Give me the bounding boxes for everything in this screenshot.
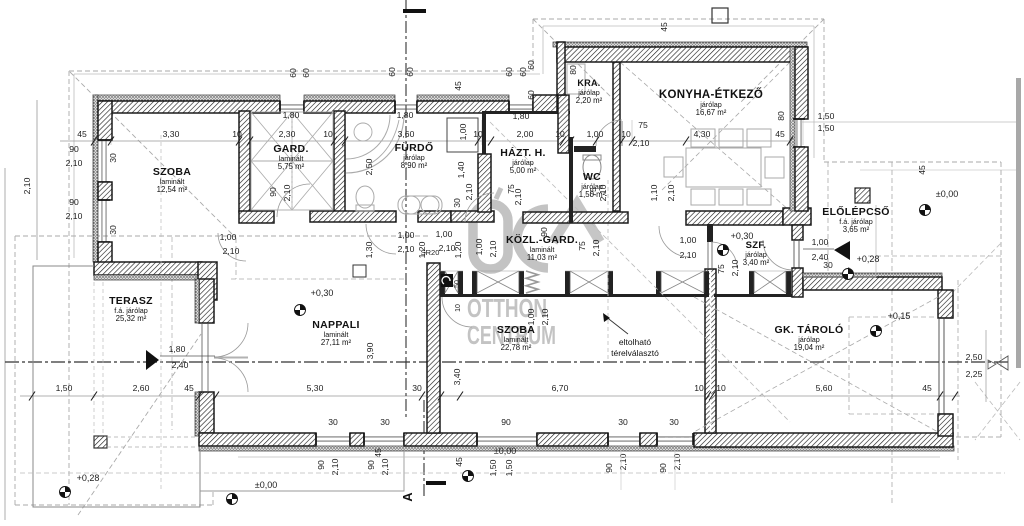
svg-text:1,80: 1,80 xyxy=(169,344,186,354)
svg-text:90: 90 xyxy=(501,417,511,427)
svg-text:+0,30: +0,30 xyxy=(311,288,334,298)
svg-text:5,00 m²: 5,00 m² xyxy=(510,166,537,175)
svg-text:1,30: 1,30 xyxy=(364,241,374,258)
svg-text:2,10: 2,10 xyxy=(633,138,650,148)
svg-text:45: 45 xyxy=(77,129,87,139)
svg-text:90: 90 xyxy=(69,197,79,207)
svg-text:1,10: 1,10 xyxy=(649,184,659,201)
svg-text:2,10: 2,10 xyxy=(398,244,415,254)
svg-text:5,60: 5,60 xyxy=(816,383,833,393)
svg-text:1,00: 1,00 xyxy=(436,229,453,239)
svg-text:90: 90 xyxy=(539,227,549,237)
svg-text:2,00: 2,00 xyxy=(517,129,534,139)
svg-text:1,50: 1,50 xyxy=(488,459,498,476)
svg-text:2,10: 2,10 xyxy=(464,183,474,200)
svg-text:±0,00: ±0,00 xyxy=(255,480,277,490)
svg-text:45: 45 xyxy=(917,165,927,175)
svg-text:10: 10 xyxy=(455,304,462,312)
svg-text:eltolható: eltolható xyxy=(619,337,651,347)
svg-text:60: 60 xyxy=(526,90,536,100)
svg-text:3,65 m²: 3,65 m² xyxy=(843,225,870,234)
svg-text:10: 10 xyxy=(716,383,726,393)
svg-text:60: 60 xyxy=(504,67,514,77)
svg-text:30: 30 xyxy=(618,417,628,427)
svg-text:2,10: 2,10 xyxy=(672,453,682,470)
svg-text:12,54 m²: 12,54 m² xyxy=(157,185,188,194)
svg-text:±0,00: ±0,00 xyxy=(494,446,516,456)
svg-text:2,30: 2,30 xyxy=(279,129,296,139)
svg-text:10: 10 xyxy=(694,383,704,393)
svg-text:KRA.: KRA. xyxy=(577,78,600,88)
svg-text:50: 50 xyxy=(454,280,461,288)
svg-text:45: 45 xyxy=(453,81,463,91)
svg-text:1,00: 1,00 xyxy=(220,232,237,242)
svg-text:2,10: 2,10 xyxy=(66,211,83,221)
svg-text:10: 10 xyxy=(232,129,242,139)
svg-text:30: 30 xyxy=(380,417,390,427)
svg-text:2,60: 2,60 xyxy=(133,383,150,393)
svg-text:75: 75 xyxy=(577,241,587,251)
svg-text:5,75 m²: 5,75 m² xyxy=(278,162,305,171)
svg-text:10: 10 xyxy=(323,129,333,139)
svg-text:90: 90 xyxy=(604,463,614,473)
svg-text:1,00: 1,00 xyxy=(812,237,829,247)
svg-text:3,90: 3,90 xyxy=(365,342,375,359)
svg-text:1,80: 1,80 xyxy=(513,111,530,121)
svg-text:1,40: 1,40 xyxy=(456,161,466,178)
svg-text:80: 80 xyxy=(568,65,578,75)
svg-text:30: 30 xyxy=(328,417,338,427)
svg-text:2,10: 2,10 xyxy=(282,184,292,201)
svg-text:30: 30 xyxy=(452,198,462,208)
svg-text:+0,28: +0,28 xyxy=(857,254,880,264)
svg-text:2,10: 2,10 xyxy=(666,184,676,201)
svg-text:3,30: 3,30 xyxy=(163,129,180,139)
svg-text:2,50: 2,50 xyxy=(364,158,374,175)
svg-text:90: 90 xyxy=(69,144,79,154)
svg-text:16,67 m²: 16,67 m² xyxy=(696,108,727,117)
svg-text:2,10: 2,10 xyxy=(66,158,83,168)
svg-text:1,50: 1,50 xyxy=(818,111,835,121)
svg-text:45: 45 xyxy=(922,383,932,393)
svg-text:1,50: 1,50 xyxy=(504,459,514,476)
svg-text:1,00: 1,00 xyxy=(398,230,415,240)
svg-text:19,04 m²: 19,04 m² xyxy=(794,343,825,352)
svg-text:2,25: 2,25 xyxy=(966,369,983,379)
svg-text:30: 30 xyxy=(412,383,422,393)
svg-text:4,30: 4,30 xyxy=(694,129,711,139)
svg-text:45: 45 xyxy=(454,457,464,467)
svg-text:3,40: 3,40 xyxy=(452,368,462,385)
svg-text:60: 60 xyxy=(405,67,415,77)
svg-text:2,10: 2,10 xyxy=(223,246,240,256)
svg-text:1,80: 1,80 xyxy=(397,110,414,120)
svg-text:2,10: 2,10 xyxy=(598,184,608,201)
svg-text:2,40: 2,40 xyxy=(172,360,189,370)
svg-text:1,00: 1,00 xyxy=(458,123,468,140)
svg-text:±0,00: ±0,00 xyxy=(936,189,958,199)
svg-text:2,10: 2,10 xyxy=(488,240,498,257)
svg-text:45: 45 xyxy=(184,383,194,393)
svg-text:75: 75 xyxy=(588,187,598,197)
svg-text:25,32 m²: 25,32 m² xyxy=(116,314,147,323)
svg-text:90: 90 xyxy=(316,460,326,470)
svg-text:45: 45 xyxy=(373,448,383,458)
svg-text:1,00: 1,00 xyxy=(680,235,697,245)
svg-text:30: 30 xyxy=(108,225,118,235)
svg-text:60: 60 xyxy=(301,68,311,78)
svg-text:10: 10 xyxy=(621,129,631,139)
svg-text:2,50: 2,50 xyxy=(966,352,983,362)
svg-text:80: 80 xyxy=(776,111,786,121)
svg-text:A: A xyxy=(400,492,415,502)
svg-text:60: 60 xyxy=(526,60,536,70)
svg-text:90: 90 xyxy=(268,187,278,197)
svg-text:3,40 m²: 3,40 m² xyxy=(743,258,770,267)
svg-text:10: 10 xyxy=(555,129,565,139)
svg-text:30: 30 xyxy=(669,417,679,427)
svg-text:30: 30 xyxy=(108,153,118,163)
svg-text:2,10: 2,10 xyxy=(618,453,628,470)
svg-text:30: 30 xyxy=(823,260,833,270)
svg-text:2,10: 2,10 xyxy=(730,259,740,276)
svg-text:2,10: 2,10 xyxy=(513,188,523,205)
svg-text:8,90 m²: 8,90 m² xyxy=(401,161,428,170)
svg-text:2,10: 2,10 xyxy=(680,250,697,260)
svg-text:+0,28: +0,28 xyxy=(77,473,100,483)
svg-text:11,03 m²: 11,03 m² xyxy=(527,253,558,262)
svg-text:60: 60 xyxy=(288,68,298,78)
svg-text:75: 75 xyxy=(638,120,648,130)
svg-text:2,10: 2,10 xyxy=(540,308,550,325)
svg-text:1,00: 1,00 xyxy=(526,308,536,325)
svg-text:SR20: SR20 xyxy=(421,248,440,257)
svg-text:1,50: 1,50 xyxy=(818,123,835,133)
svg-text:27,11 m²: 27,11 m² xyxy=(321,338,352,347)
svg-text:60: 60 xyxy=(387,67,397,77)
svg-text:+0,30: +0,30 xyxy=(731,231,754,241)
svg-text:2,10: 2,10 xyxy=(439,243,456,253)
svg-text:1,50: 1,50 xyxy=(56,383,73,393)
svg-text:1,00: 1,00 xyxy=(587,129,604,139)
svg-text:2,20 m²: 2,20 m² xyxy=(576,96,603,105)
svg-text:1,00: 1,00 xyxy=(474,238,484,255)
svg-text:térelválasztó: térelválasztó xyxy=(611,348,659,358)
svg-text:2,10: 2,10 xyxy=(591,239,601,256)
svg-text:75: 75 xyxy=(716,264,726,274)
svg-text:22,78 m²: 22,78 m² xyxy=(501,343,532,352)
svg-text:10: 10 xyxy=(473,129,483,139)
svg-text:1,80: 1,80 xyxy=(283,110,300,120)
svg-text:5,30: 5,30 xyxy=(307,383,324,393)
svg-text:6,70: 6,70 xyxy=(552,383,569,393)
svg-text:90: 90 xyxy=(366,460,376,470)
svg-text:3,60: 3,60 xyxy=(398,129,415,139)
svg-text:45: 45 xyxy=(659,22,669,32)
svg-text:45: 45 xyxy=(775,129,785,139)
svg-text:+0,15: +0,15 xyxy=(888,311,911,321)
svg-text:2,10: 2,10 xyxy=(22,177,32,194)
svg-text:90: 90 xyxy=(658,463,668,473)
